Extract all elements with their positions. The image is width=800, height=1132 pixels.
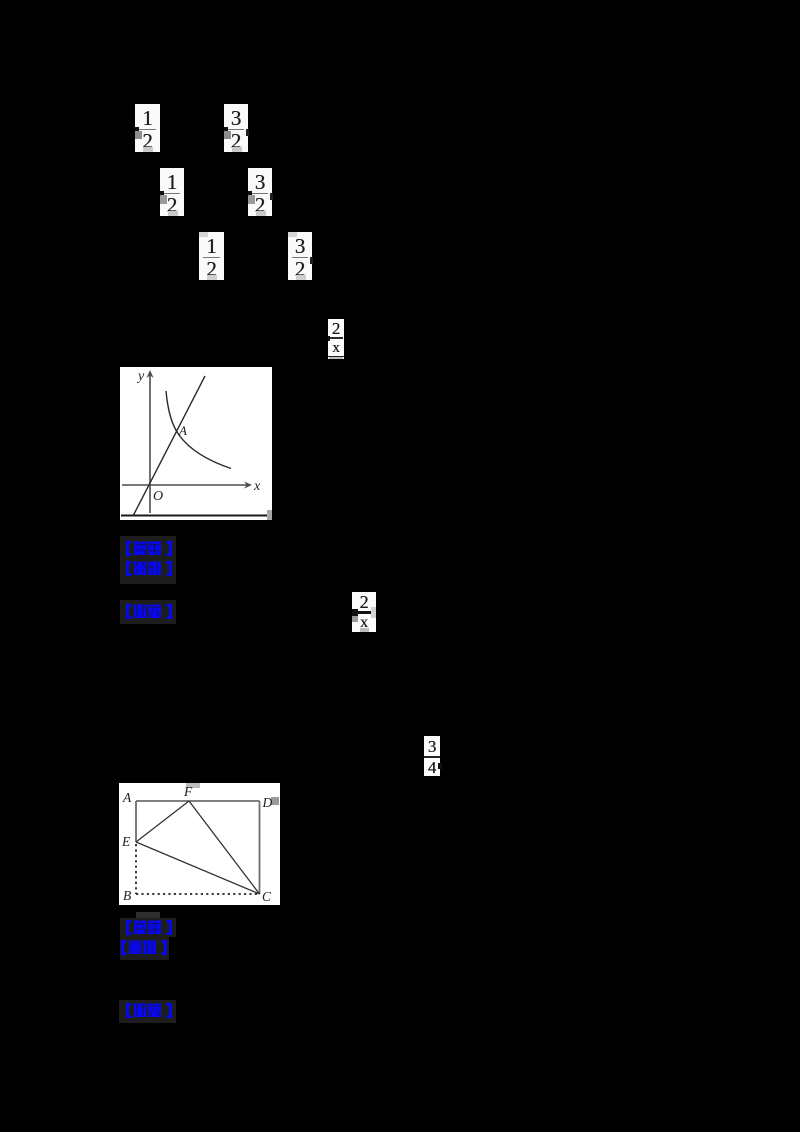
dotted edges E-B, B-C [136, 844, 260, 894]
fraction 3/2 row1 [224, 104, 248, 152]
svg-text:x: x [253, 479, 261, 494]
svg-text:A: A [178, 423, 187, 438]
gray mark above F [186, 783, 200, 788]
y-axis arrowhead [146, 370, 153, 378]
blue block 2: jieda [120, 600, 176, 624]
fraction 2/x second [352, 592, 376, 632]
svg-text:y: y [136, 369, 145, 384]
rectangle solid edges A-D, D-C, A-E [136, 801, 260, 894]
corner gray block [267, 510, 272, 520]
y-axis [122, 375, 249, 513]
line through origin [133, 376, 205, 516]
fraction 3/2 row2 [248, 168, 272, 216]
x-axis arrowhead [244, 481, 252, 488]
gray square right of D [271, 797, 279, 805]
gray remnant above blue block 3 [136, 912, 160, 919]
triangle lines E-F, F-C, E-C [136, 801, 260, 894]
svg-text:A: A [122, 790, 132, 805]
fraction 1/2 row3 [199, 232, 224, 280]
bottom rule [121, 515, 267, 517]
hyperbola branch [166, 391, 231, 469]
fraction 1/2 row2 [160, 168, 184, 216]
svg-text:C: C [262, 889, 272, 904]
svg-text:E: E [121, 834, 131, 849]
svg-text:F: F [183, 784, 193, 799]
fraction 3/4 [424, 736, 440, 776]
blue block 3: kaodian/fenxi [120, 918, 176, 960]
fraction 1/2 row1 [135, 104, 160, 152]
blue block 4: jieda [119, 1000, 176, 1023]
fraction 3/2 row3 [288, 232, 312, 280]
rectangle figure ABCD with E F [119, 783, 280, 905]
svg-text:D: D [262, 795, 273, 810]
graph figure: line and hyperbola [120, 367, 272, 520]
svg-text:B: B [123, 888, 131, 903]
fraction 2/x first [328, 319, 344, 359]
svg-text:O: O [153, 489, 163, 504]
blue block 1: kaodian/fenxi [120, 536, 176, 584]
